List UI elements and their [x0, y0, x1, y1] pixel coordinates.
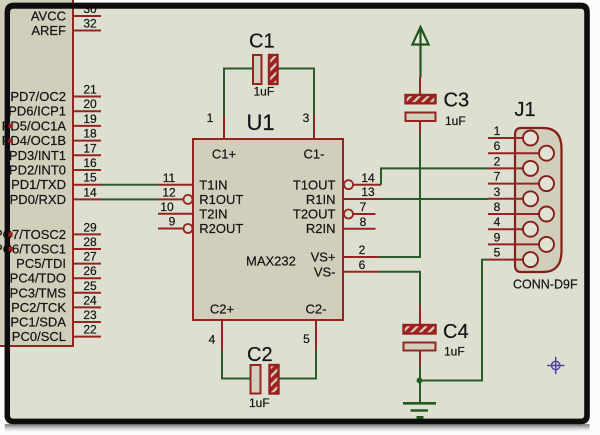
- U1 pin 1 C1+ top stub: [207, 111, 224, 139]
- svg-text:29: 29: [83, 220, 97, 234]
- svg-text:VS+: VS+: [311, 250, 336, 265]
- svg-text:R1OUT: R1OUT: [199, 192, 243, 207]
- wire junction to J1 pin5: [420, 260, 488, 381]
- svg-text:24: 24: [83, 293, 97, 307]
- svg-text:28: 28: [83, 235, 97, 249]
- svg-text:12: 12: [162, 185, 176, 199]
- U1 pin 12 R1OUT left stub with bubble: [158, 185, 193, 204]
- MCU pin AREF stub pin 32: [31, 17, 101, 39]
- MCU pin PC0/SCL stub pin 22: [12, 323, 101, 345]
- svg-text:25: 25: [83, 279, 97, 293]
- svg-text:15: 15: [83, 171, 97, 185]
- svg-text:C1+: C1+: [212, 147, 236, 162]
- svg-text:C3: C3: [444, 90, 470, 112]
- J1 pin 1 stub: [488, 124, 524, 138]
- U1 pin 10 T2IN left stub: [158, 200, 193, 214]
- svg-text:1: 1: [494, 124, 501, 138]
- svg-text:1uF: 1uF: [444, 345, 465, 359]
- svg-text:C2: C2: [247, 344, 273, 366]
- svg-text:MAX232: MAX232: [246, 254, 296, 269]
- svg-text:T1OUT: T1OUT: [293, 177, 336, 192]
- J1 socket holes: [523, 131, 554, 268]
- svg-text:R2IN: R2IN: [306, 221, 336, 236]
- svg-text:AREF: AREF: [31, 23, 66, 38]
- svg-text:PC4/TDO: PC4/TDO: [10, 271, 66, 286]
- J1 pin 6 stub: [488, 139, 540, 153]
- svg-text:6: 6: [359, 258, 366, 272]
- svg-text:C4: C4: [443, 321, 469, 343]
- U1 pin 14 T1OUT right stub with bubble: [344, 171, 381, 189]
- MCU pin PD5/OC1A stub pin 19: [2, 112, 101, 133]
- MCU clipped left pin marks: [9, 124, 13, 252]
- wire C2 right plate to U1 pin5: [279, 350, 316, 379]
- svg-text:11: 11: [163, 171, 176, 185]
- svg-text:C1: C1: [249, 31, 275, 53]
- svg-text:U1: U1: [247, 110, 275, 135]
- U1 pin 8 R2IN right stub: [343, 215, 376, 229]
- U1 pin 4 C2+ bottom stub: [209, 320, 222, 350]
- MCU pin PD7/OC2 stub pin 21: [10, 83, 101, 105]
- svg-text:C1-: C1-: [304, 147, 325, 162]
- svg-text:14: 14: [83, 185, 97, 199]
- U1 pin 2 VS+ right stub: [343, 243, 379, 257]
- MCU pin AVCC stub pin 30: [31, 2, 101, 24]
- svg-text:32: 32: [83, 17, 97, 31]
- svg-text:AVCC: AVCC: [31, 9, 66, 24]
- J1 pin 4 stub: [488, 215, 524, 229]
- svg-text:1uF: 1uF: [249, 396, 270, 410]
- U1 pin 5 C2- bottom stub: [303, 320, 316, 350]
- capacitor C1: [249, 31, 278, 99]
- MCU pin PD0/RXD stub pin 14: [10, 185, 101, 207]
- J1 pin 7 stub: [488, 170, 540, 184]
- svg-text:6: 6: [494, 139, 501, 153]
- MCU pin PC4/TDO stub pin 26: [10, 264, 101, 286]
- ground: [403, 403, 436, 417]
- svg-text:21: 21: [83, 83, 97, 97]
- origin crosshair marker: [547, 357, 564, 374]
- svg-text:T1IN: T1IN: [199, 177, 227, 192]
- svg-text:8: 8: [360, 215, 367, 229]
- U1 pin 13 R1IN right stub: [343, 185, 381, 199]
- capacitor C3 bottom stub: [419, 121, 421, 134]
- svg-text:7: 7: [360, 200, 367, 214]
- svg-text:3: 3: [494, 185, 501, 199]
- svg-text:13: 13: [361, 185, 375, 199]
- svg-text:2: 2: [494, 154, 501, 168]
- MCU chip body (partial, left): [0, 0, 73, 346]
- svg-text:18: 18: [83, 127, 97, 141]
- wire C1 right plate to U1 pin3: [278, 69, 315, 116]
- svg-text:2: 2: [359, 243, 366, 257]
- capacitor C4 bottom stub: [419, 351, 421, 367]
- U1 pin 6 VS- right stub: [343, 258, 379, 272]
- svg-text:27: 27: [83, 250, 97, 264]
- J1 pin 9 stub: [488, 230, 540, 244]
- wire VS- to C4: [379, 272, 420, 305]
- svg-text:3: 3: [303, 111, 310, 125]
- svg-text:10: 10: [160, 200, 174, 214]
- svg-text:CONN-D9F: CONN-D9F: [513, 278, 578, 292]
- svg-text:T2OUT: T2OUT: [293, 207, 336, 222]
- MCU pin PC3/TMS stub pin 25: [10, 279, 101, 301]
- svg-text:C2-: C2-: [306, 302, 327, 317]
- svg-text:1uF: 1uF: [254, 85, 275, 99]
- U1 pin 7 T2OUT right stub with bubble: [344, 200, 376, 218]
- MCU pin PD6/ICP1 stub pin 20: [8, 97, 101, 119]
- svg-text:T2IN: T2IN: [199, 207, 227, 222]
- capacitor C4 top stub: [419, 305, 421, 325]
- wire PD0/RXD to R1OUT: [101, 198, 158, 200]
- svg-text:PC5/TDI: PC5/TDI: [16, 256, 66, 271]
- wire U1 pin1 to C1 left plate: [224, 69, 253, 116]
- U1 pin 9 R2OUT left stub with bubble: [158, 215, 193, 234]
- svg-text:PD3/INT1: PD3/INT1: [9, 148, 66, 163]
- MCU pin PC2/TCK stub pin 24: [11, 293, 101, 315]
- capacitor C3: [406, 90, 470, 129]
- svg-text:23: 23: [83, 308, 97, 322]
- wire VS+ to C3 rail: [379, 134, 420, 257]
- capacitor C4: [404, 321, 469, 359]
- U1 pin 3 C1- top stub: [303, 111, 314, 139]
- svg-text:26: 26: [83, 264, 97, 278]
- svg-text:19: 19: [83, 112, 97, 126]
- connector J1 body: [513, 99, 578, 292]
- svg-text:C2+: C2+: [210, 302, 234, 317]
- svg-text:1: 1: [207, 111, 214, 125]
- MCU pin PC7/TOSC2 stub pin 29: [0, 220, 101, 242]
- svg-text:22: 22: [83, 323, 97, 337]
- svg-text:9: 9: [169, 215, 176, 229]
- svg-text:20: 20: [83, 97, 97, 111]
- svg-text:14: 14: [361, 171, 375, 185]
- U1 pin 11 T1IN left stub: [158, 171, 193, 185]
- svg-text:9: 9: [494, 230, 501, 244]
- svg-text:PC0/SCL: PC0/SCL: [12, 329, 66, 344]
- svg-text:5: 5: [494, 246, 501, 260]
- svg-text:VS-: VS-: [314, 264, 336, 279]
- svg-text:PC2/TCK: PC2/TCK: [11, 300, 66, 315]
- J1 pin 3 stub: [488, 185, 524, 199]
- capacitor C2: [247, 344, 279, 410]
- svg-text:16: 16: [83, 156, 97, 170]
- capacitor C3 top stub: [419, 77, 421, 95]
- J1 pin 8 stub: [488, 200, 540, 214]
- J1 pin 5 stub: [488, 246, 524, 260]
- svg-text:7: 7: [494, 170, 501, 184]
- svg-text:PD0/RXD: PD0/RXD: [10, 192, 66, 207]
- power arrow VCC: [412, 27, 428, 78]
- svg-text:J1: J1: [515, 99, 536, 121]
- wire C4 to ground: [419, 366, 421, 403]
- svg-text:PC1/SDA: PC1/SDA: [10, 315, 66, 330]
- IC U1 MAX232 body: [193, 110, 343, 320]
- svg-text:PD2/INT0: PD2/INT0: [9, 163, 66, 178]
- J1 pin 2 stub: [488, 154, 524, 168]
- wire T1OUT to J1 pin2: [381, 168, 488, 184]
- svg-text:17: 17: [83, 141, 97, 155]
- MCU pin PC6/TOSC1 stub pin 28: [0, 235, 101, 257]
- svg-text:PC3/TMS: PC3/TMS: [10, 285, 67, 300]
- svg-text:4: 4: [209, 333, 216, 347]
- wire R1IN to J1 pin3: [381, 198, 488, 200]
- svg-text:1uF: 1uF: [445, 114, 466, 128]
- svg-text:8: 8: [494, 200, 501, 214]
- MCU pin PD3/INT1 stub pin 17: [9, 141, 101, 163]
- MCU pin PD4/OC1B stub pin 18: [2, 127, 101, 149]
- MCU pin PC5/TDI stub pin 27: [16, 250, 101, 272]
- svg-text:PD6/ICP1: PD6/ICP1: [8, 104, 66, 119]
- MCU pin PC1/SDA stub pin 23: [10, 308, 101, 330]
- svg-text:R1IN: R1IN: [306, 192, 336, 207]
- svg-text:4: 4: [494, 215, 501, 229]
- wire U1 pin4 to C2 left plate: [222, 350, 251, 379]
- node junction at C4/ground/J1 pin5: [417, 378, 423, 384]
- svg-text:PD7/OC2: PD7/OC2: [10, 89, 66, 104]
- svg-text:PD1/TXD: PD1/TXD: [11, 177, 66, 192]
- wire PD1/TXD to T1IN: [101, 184, 158, 186]
- MCU pin PD2/INT0 stub pin 16: [9, 156, 101, 178]
- svg-text:5: 5: [303, 332, 310, 346]
- svg-text:R2OUT: R2OUT: [199, 221, 243, 236]
- MCU pin PD1/TXD stub pin 15: [11, 171, 101, 193]
